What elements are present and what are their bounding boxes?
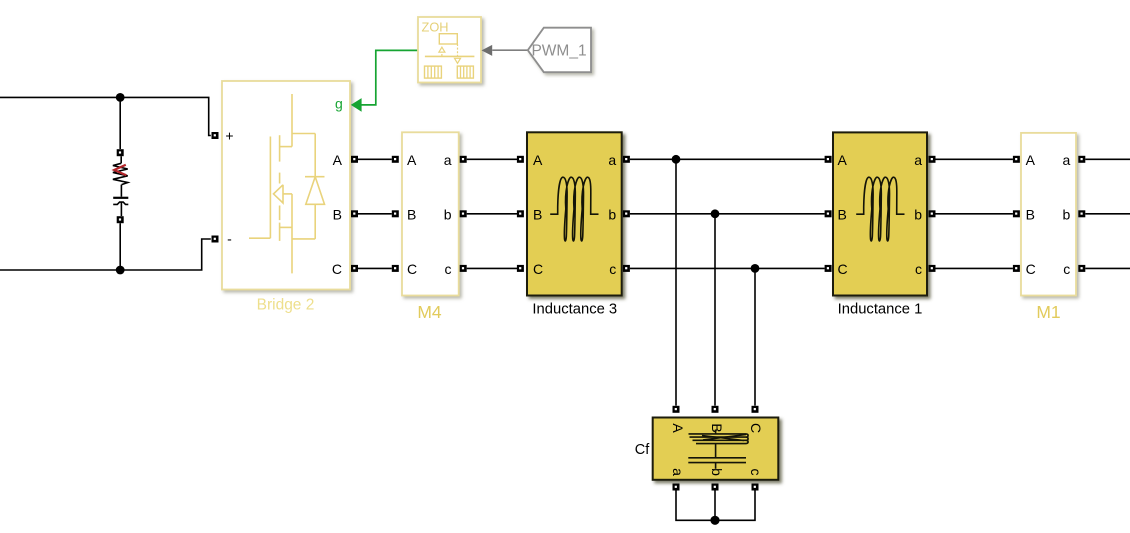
inductor L1 coil icon	[856, 177, 904, 241]
wire phase C drop to Cf	[754, 268, 756, 405]
wire M1 b out to edge	[1085, 213, 1130, 215]
port M1 a out	[1078, 156, 1085, 163]
svg-text:A: A	[670, 423, 686, 433]
port snubber top	[117, 149, 124, 156]
capacitor C snubber curved plate	[113, 202, 128, 204]
pin label L1 A	[838, 152, 848, 168]
svg-text:a: a	[1063, 152, 1071, 168]
port Cf C top	[752, 406, 759, 413]
wire green gate from ZOH to g	[361, 50, 418, 105]
svg-text:ZOH: ZOH	[422, 20, 449, 35]
port L1 C in	[825, 265, 832, 272]
port L1 c out	[929, 265, 936, 272]
pin label Cf C rotated	[748, 423, 764, 433]
pin label L1 a	[914, 152, 922, 168]
inductor L3 Inductance 3 block body	[527, 132, 622, 295]
port M4 C in	[392, 265, 399, 272]
node ZOH down arrow	[455, 44, 461, 63]
pin label L3 B	[533, 206, 542, 222]
svg-text:B: B	[1026, 206, 1035, 222]
wire Cf b to neutral bus	[714, 491, 716, 521]
port M1 B in	[1013, 210, 1020, 217]
svg-text:M4: M4	[417, 302, 442, 322]
svg-text:C: C	[838, 261, 848, 277]
svg-text:b: b	[608, 206, 616, 222]
node ZOH up arrow	[439, 47, 445, 56]
port Bridge +	[212, 132, 219, 139]
label Inductance 3	[532, 301, 617, 317]
resistor R snubber red overlay	[114, 165, 126, 175]
svg-text:Bridge 2: Bridge 2	[257, 296, 315, 313]
inductor Cf rotated coil icon	[689, 430, 749, 458]
pin label L3 b	[608, 206, 616, 222]
svg-text:A: A	[407, 152, 417, 168]
svg-text:C: C	[533, 261, 543, 277]
node gray arrowhead into ZOH	[482, 45, 493, 56]
svg-text:C: C	[1026, 261, 1036, 277]
port L3 C in	[517, 265, 524, 272]
capacitor Cf plates icon	[688, 458, 746, 469]
svg-text:-: -	[227, 231, 232, 247]
pin label L1 C	[838, 261, 848, 277]
capacitor C snubber top plate	[113, 197, 128, 199]
op-amp U2 ZOH block body	[418, 17, 481, 83]
pin label M4 c	[445, 261, 452, 277]
svg-text:Inductance 1: Inductance 1	[838, 301, 923, 317]
label Cf	[635, 442, 650, 458]
svg-text:+: +	[225, 127, 233, 143]
port Cf A top	[673, 406, 680, 413]
svg-text:Cf: Cf	[635, 442, 650, 458]
capacitor ZOH right comb	[457, 66, 473, 78]
pin label M4 b	[444, 206, 452, 222]
wire phase B drop to Cf	[714, 214, 716, 406]
capacitor Cf block body	[653, 418, 779, 480]
wire Bridge B to M4 B	[358, 213, 392, 215]
svg-text:A: A	[838, 152, 848, 168]
op-amp U3 M4 block body	[402, 132, 459, 295]
port M1 b out	[1078, 210, 1085, 217]
svg-text:a: a	[670, 468, 686, 476]
svg-text:A: A	[333, 152, 343, 168]
port M4 A in	[392, 156, 399, 163]
svg-text:b: b	[914, 206, 922, 222]
svg-text:b: b	[444, 206, 452, 222]
transistor Q2 lower MOSFET of bridge icon	[274, 173, 293, 241]
pin label B	[333, 206, 342, 222]
label PWM_1	[531, 43, 586, 60]
port Bridge -	[212, 236, 219, 243]
pin label L1 b	[914, 206, 922, 222]
port L3 b out	[623, 210, 630, 217]
svg-text:M1: M1	[1036, 302, 1060, 322]
wire snubber branch top lead	[119, 97, 121, 149]
svg-text:c: c	[748, 469, 764, 476]
resistor R snubber zigzag	[113, 163, 128, 184]
pin label +	[225, 127, 233, 143]
svg-text:C: C	[407, 261, 417, 277]
port Bridge C	[351, 265, 358, 272]
svg-text:a: a	[608, 152, 616, 168]
port L1 A in	[825, 156, 832, 163]
port M1 C in	[1013, 265, 1020, 272]
diode D1 of bridge icon	[305, 134, 325, 239]
wire L1 c to M1 C	[936, 267, 1013, 269]
port M4 a out	[460, 156, 467, 163]
wire M4 a to L3 A	[467, 158, 517, 160]
inductor L3 coil icon	[550, 177, 598, 241]
label ZOH	[422, 20, 449, 35]
pin label Cf b rotated	[709, 468, 725, 476]
port L3 c out	[623, 265, 630, 272]
svg-text:B: B	[709, 423, 725, 432]
pin label M1 A	[1026, 152, 1036, 168]
pin label L3 C	[533, 261, 543, 277]
port L1 a out	[929, 156, 936, 163]
wire capacitor bottom lead	[120, 202, 122, 216]
svg-text:c: c	[445, 261, 452, 277]
wire ZOH baseline	[425, 55, 475, 57]
svg-text:c: c	[609, 261, 616, 277]
pin label M1 B	[1026, 206, 1035, 222]
pin label M4 C	[407, 261, 417, 277]
pin label g green	[335, 96, 343, 112]
pin label L3 A	[533, 152, 543, 168]
pin label M4 a	[444, 152, 452, 168]
port Cf b bottom	[712, 484, 719, 491]
pin label M1 a	[1063, 152, 1071, 168]
svg-text:PWM_1: PWM_1	[531, 43, 586, 60]
svg-text:c: c	[915, 261, 922, 277]
wire Bridge A to M4 A	[358, 158, 392, 160]
pin label M1 c	[1063, 261, 1070, 277]
pin label Cf a rotated	[670, 468, 686, 476]
port Bridge A	[351, 156, 358, 163]
wire Bridge C to M4 C	[358, 267, 392, 269]
pin label L1 B	[838, 206, 847, 222]
pin label L1 c	[915, 261, 922, 277]
pin label M4 B	[407, 206, 416, 222]
port L1 B in	[825, 210, 832, 217]
transistor Q1 upper MOSFET of bridge icon	[249, 94, 315, 238]
svg-text:b: b	[1063, 206, 1071, 222]
port L1 b out	[929, 210, 936, 217]
svg-text:B: B	[838, 206, 847, 222]
svg-text:g: g	[335, 96, 343, 112]
label Bridge 2	[257, 296, 315, 313]
svg-text:c: c	[1063, 261, 1070, 277]
wire Cf a to neutral bus	[676, 491, 715, 521]
wire L1 b to M1 B	[936, 213, 1013, 215]
wire resistor to capacitor lead	[120, 185, 122, 197]
wire L3 b to L1 B phase B	[630, 213, 825, 215]
node green arrowhead at g	[351, 98, 362, 112]
wire L1 a to M1 A	[936, 158, 1013, 160]
svg-text:C: C	[748, 423, 764, 433]
wire top DC rail	[0, 97, 211, 135]
wire M1 c out to edge	[1085, 267, 1130, 269]
port L3 A in	[517, 156, 524, 163]
pin label Cf c rotated	[748, 469, 764, 476]
pin label Cf B rotated	[709, 423, 725, 432]
pin label L3 a	[608, 152, 616, 168]
pin label M1 b	[1063, 206, 1071, 222]
svg-text:a: a	[914, 152, 922, 168]
pin label Cf A rotated	[670, 423, 686, 433]
pin label -	[227, 231, 232, 247]
svg-text:A: A	[1026, 152, 1036, 168]
wire snubber lead to resistor	[120, 156, 122, 163]
pin label C	[332, 261, 342, 277]
wire M4 c to L3 C	[467, 267, 517, 269]
pin label L3 c	[609, 261, 616, 277]
svg-text:B: B	[533, 206, 542, 222]
op-amp U4 M1 block body	[1021, 133, 1076, 296]
node neutral junction	[710, 516, 719, 525]
node phase B junction	[711, 209, 720, 218]
pin label A	[333, 152, 343, 168]
wire Cf c to neutral bus	[715, 491, 755, 521]
node phase A junction	[672, 155, 681, 164]
wire M1 a out to edge	[1085, 158, 1130, 160]
capacitor ZOH inner rect	[439, 34, 457, 44]
svg-text:C: C	[332, 261, 342, 277]
label Inductance 1	[838, 301, 923, 317]
port L3 B in	[517, 210, 524, 217]
pin label M4 A	[407, 152, 417, 168]
port M4 B in	[392, 210, 399, 217]
svg-text:a: a	[444, 152, 452, 168]
svg-text:B: B	[333, 206, 342, 222]
inductor L1 Inductance 1 block body	[833, 132, 927, 295]
port Cf a bottom	[673, 484, 680, 491]
port M4 b out	[460, 210, 467, 217]
wire bottom DC rail	[0, 239, 211, 270]
label M4	[417, 302, 442, 322]
node top rail junction	[116, 93, 125, 102]
svg-text:b: b	[709, 468, 725, 476]
wire phase A drop to Cf	[675, 159, 677, 405]
node bottom rail junction	[116, 266, 125, 275]
node phase C junction	[751, 264, 760, 273]
op-amp U1 Bridge 2 block body	[222, 81, 350, 290]
port snubber bottom	[117, 216, 124, 223]
wire M4 b to L3 B	[467, 213, 517, 215]
port M1 c out	[1078, 265, 1085, 272]
capacitor ZOH left comb	[425, 66, 442, 78]
port Cf c bottom	[752, 484, 759, 491]
port M1 A in	[1013, 156, 1020, 163]
svg-text:B: B	[407, 206, 416, 222]
svg-text:A: A	[533, 152, 543, 168]
wire gray from PWM_1	[492, 49, 528, 51]
wire bridge icon bottom lead	[292, 194, 315, 274]
port L3 a out	[623, 156, 630, 163]
wire snubber branch bottom lead	[119, 223, 121, 270]
node PWM_1 tag	[528, 28, 591, 72]
label M1	[1036, 302, 1060, 322]
port Bridge B	[351, 210, 358, 217]
pin label M1 C	[1026, 261, 1036, 277]
port Cf B top	[712, 406, 719, 413]
svg-text:Inductance 3: Inductance 3	[532, 301, 617, 317]
wire L3 a to L1 A phase A	[630, 158, 825, 160]
wire L3 c to L1 C phase C	[630, 267, 825, 269]
port M4 c out	[460, 265, 467, 272]
